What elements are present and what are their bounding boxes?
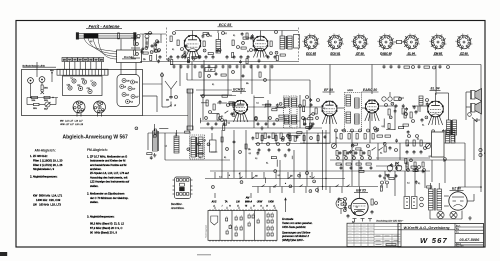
components on rails	[261, 136, 263, 141]
svg-text:UKW L17 L17 L18 L18: UKW L17 L17 L18 L18	[60, 124, 84, 126]
wire drops from bus	[179, 65, 181, 87]
svg-text:240: 240	[166, 100, 169, 102]
component cluster mid left band	[159, 127, 168, 129]
svg-text:TA: TA	[383, 177, 386, 180]
driver transformer	[446, 130, 450, 143]
tube socket diagram EABC 80	[379, 35, 393, 49]
tube EABC80	[366, 100, 379, 113]
tube socket diagram EF 89	[353, 35, 367, 49]
svg-text:L13: L13	[126, 94, 129, 96]
svg-text:AM: AM	[245, 197, 250, 200]
svg-text:1. ZF 10,7 MHz, Meßsender an G: 1. ZF 10,7 MHz, Meßsender an G	[87, 154, 127, 158]
coil L25	[174, 136, 179, 153]
svg-text:Instrumente und Kreise der M: Instrumente und Kreise der M	[90, 159, 126, 163]
wires mid left	[148, 132, 191, 134]
terminal strip bar	[57, 69, 108, 75]
svg-text:22k: 22k	[143, 59, 146, 61]
wire antenna feed	[161, 72, 163, 107]
wire bus AF	[252, 186, 378, 188]
wire zf link	[187, 79, 310, 81]
resistor 560k	[41, 85, 43, 90]
svg-text:UKW: UKW	[268, 201, 274, 203]
switch table box	[208, 211, 277, 241]
cluster under bus	[199, 72, 201, 77]
tuner assembly frame	[22, 70, 143, 116]
component cluster FM upper	[241, 32, 243, 33]
svg-text:60pF: 60pF	[44, 109, 48, 111]
terminal E circle	[39, 77, 45, 83]
output transformer	[447, 120, 451, 135]
svg-text:T 9: T 9	[456, 232, 458, 234]
svg-text:0,1: 0,1	[273, 187, 275, 189]
ratio detector transformer	[345, 93, 362, 132]
mains switch symbol	[211, 216, 218, 225]
svg-text:TA: TA	[225, 200, 228, 203]
dipole antenna	[167, 83, 172, 89]
component cluster EF89 grid	[303, 100, 305, 106]
terminal strip labels	[62, 58, 67, 62]
svg-text:Erg.: Erg.	[456, 228, 460, 231]
svg-text:0,1: 0,1	[402, 98, 404, 100]
svg-text:Filter 2 (L17/21) 28, L 26: Filter 2 (L17/21) 28, L 26	[33, 163, 63, 167]
filter cap cluster	[387, 165, 393, 171]
IF transformer 1.ZF	[280, 36, 285, 49]
tube pin leads ECC85b	[253, 51, 256, 58]
svg-text:EF 89: EF 89	[356, 51, 364, 55]
svg-text:25k: 25k	[248, 149, 251, 151]
svg-text:L7: L7	[91, 80, 93, 82]
svg-text:0,1: 0,1	[225, 33, 227, 35]
svg-text:Singlekreisele L 9: Singlekreisele L 9	[33, 167, 55, 171]
switch rotary	[45, 102, 50, 107]
wire frame links	[26, 98, 28, 105]
svg-text:0,1: 0,1	[204, 140, 206, 142]
svg-text:1. ZF: 1. ZF	[208, 70, 213, 72]
tube EM85	[351, 198, 368, 215]
component cluster mid right band	[414, 168, 416, 172]
svg-text:stellen.: stellen.	[90, 184, 99, 188]
wire lattice right	[394, 106, 396, 130]
tube pin leads EABC	[365, 113, 368, 121]
svg-text:ECC 85: ECC 85	[219, 23, 233, 27]
svg-text:L10: L10	[132, 88, 135, 90]
svg-text:0,1: 0,1	[255, 158, 257, 160]
component cluster ECH81 left	[206, 100, 208, 106]
wire rails mid	[255, 132, 330, 134]
svg-text:C28: C28	[67, 84, 70, 86]
svg-text:Netz: Netz	[50, 69, 54, 72]
wire Drehko to UKW box	[120, 63, 122, 75]
svg-text:50k: 50k	[246, 83, 249, 85]
svg-text:0,1: 0,1	[233, 35, 235, 37]
AM IF transformer	[190, 135, 205, 159]
switch table pin ticks	[209, 209, 211, 210]
wire frame bottom extension	[143, 115, 189, 117]
svg-text:0,1: 0,1	[266, 162, 268, 164]
component row mid 1	[256, 133, 258, 139]
dial lamp 1	[437, 211, 444, 218]
svg-text:Gez. 8.: Gez. 8.	[456, 243, 462, 245]
svg-text:Gepr. 8/57: Gepr. 8/57	[456, 246, 464, 248]
oscillator coil L3	[216, 40, 221, 54]
svg-text:gemessen mit Multavi Ⅱ: gemessen mit Multavi Ⅱ	[282, 234, 309, 238]
svg-text:L5: L5	[174, 105, 176, 107]
svg-text:3. Abgleichfrequenzen:: 3. Abgleichfrequenzen:	[87, 215, 115, 219]
title block	[398, 224, 484, 248]
tube ECC85a	[184, 35, 200, 51]
svg-text:0,1: 0,1	[172, 49, 174, 51]
wires mains bottom	[430, 218, 462, 220]
svg-text:ZF-Spulen L6, L10, L17, L76 au: ZF-Spulen L6, L10, L17, L76 auf	[90, 171, 129, 175]
svg-text:0,1: 0,1	[228, 123, 230, 125]
transformer T terminations	[354, 219, 356, 222]
socket link symbol	[397, 40, 402, 43]
svg-text:ECC 85: ECC 85	[306, 51, 316, 55]
svg-text:87,3 MHz (Band) 20 C 9, C: 87,3 MHz (Band) 20 C 9, C	[90, 226, 122, 230]
ferrite rod antenna L1	[76, 33, 140, 44]
svg-text:0,1: 0,1	[212, 84, 214, 86]
wires IF strip	[248, 106, 284, 108]
wires switch drops	[214, 172, 216, 179]
svg-text:560k: 560k	[44, 88, 48, 90]
svg-text:0,1: 0,1	[382, 126, 384, 128]
svg-text:AM: AM	[100, 59, 103, 62]
svg-text:0,1: 0,1	[336, 138, 338, 140]
svg-text:EABC 80: EABC 80	[363, 88, 377, 92]
capacitor row FM section	[170, 55, 172, 57]
wires col mid	[221, 130, 223, 160]
svg-text:PL2: PL2	[130, 101, 133, 103]
svg-text:Frontseite: Frontseite	[282, 217, 294, 221]
resistor R2	[44, 96, 50, 98]
svg-text:Filter 1 (L19/20) 19, L 20: Filter 1 (L19/20) 19, L 20	[33, 158, 63, 162]
tube pin leads EF89	[322, 116, 325, 124]
wire FM bottom rail	[140, 61, 299, 63]
svg-text:W.Krefft A.G.,Gevelsberg: W.Krefft A.G.,Gevelsberg	[404, 225, 451, 230]
svg-text:Spannungen und Ströme: Spannungen und Ströme	[282, 230, 311, 234]
svg-text:0,1: 0,1	[165, 146, 167, 148]
arrow Frontseite	[285, 199, 287, 212]
svg-text:HF23: HF23	[347, 90, 353, 92]
component cluster FM left	[170, 36, 172, 42]
svg-text:C17: C17	[135, 96, 138, 98]
component cluster EL84 left	[404, 112, 406, 118]
svg-text:0,1: 0,1	[246, 39, 248, 41]
svg-text:UKW-Taste gedrückt.: UKW-Taste gedrückt.	[282, 225, 306, 229]
wires mid right	[300, 142, 430, 144]
terminal strip posts	[63, 62, 65, 70]
svg-text:03-67-5086: 03-67-5086	[459, 237, 480, 242]
switch table dividers	[219, 211, 221, 241]
box Drehko	[117, 50, 142, 63]
svg-text:2. Meßsender an Dipolbuchsen: 2. Meßsender an Dipolbuchsen	[87, 192, 125, 196]
component cluster mid center band	[276, 160, 278, 167]
label 1.ZF box	[205, 68, 215, 72]
svg-text:der C 70 Minimum der Gleichsp.: der C 70 Minimum der Gleichsp.	[90, 196, 129, 200]
svg-text:0,1: 0,1	[219, 176, 221, 178]
tube ECH81	[234, 100, 248, 114]
component cluster top right bus	[383, 65, 385, 67]
FM wiring top	[175, 30, 298, 32]
svg-text:0,1: 0,1	[407, 145, 409, 147]
svg-text:2. Abgleichfrequenzen:: 2. Abgleichfrequenzen:	[30, 174, 58, 178]
voltage selector blocks	[404, 197, 410, 209]
antenna input parts	[146, 38, 148, 44]
DIN socket TA	[336, 199, 346, 209]
svg-text:KW 5800 kHz L14, L71: KW 5800 kHz L14, L71	[33, 193, 63, 197]
svg-text:L9: L9	[124, 86, 126, 88]
svg-text:0,1: 0,1	[233, 112, 235, 114]
tube socket diagram ECC 85	[304, 35, 318, 49]
svg-text:EL 84: EL 84	[408, 51, 416, 55]
wire ferrite to tuner	[84, 38, 117, 59]
svg-text:0,1: 0,1	[380, 152, 382, 154]
svg-text:EABC 80: EABC 80	[380, 51, 392, 55]
tube EF89	[322, 101, 337, 116]
svg-text:EZ 80: EZ 80	[460, 51, 468, 55]
tube pin leads ECC85a	[185, 51, 188, 58]
cluster FM left col	[134, 40, 136, 45]
svg-text:ECH 81: ECH 81	[330, 51, 340, 55]
tube EZ80	[449, 192, 467, 210]
tube socket diagram EZ 80	[457, 35, 471, 49]
wires EL84 output	[435, 93, 437, 101]
box filter	[210, 140, 217, 152]
svg-text:Anschlüsse.: Anschlüsse.	[170, 207, 185, 210]
svg-text:EM 85: EM 85	[434, 51, 443, 55]
wire drops to table	[214, 207, 216, 210]
tube pin leads EL84	[428, 117, 431, 125]
svg-text:0,1: 0,1	[422, 125, 424, 127]
terminal A circle	[28, 78, 34, 84]
svg-text:1k: 1k	[247, 51, 249, 53]
resistor R3	[34, 103, 40, 105]
wire lattice IF strip	[200, 95, 236, 97]
power transformer	[429, 189, 434, 210]
svg-text:0,1: 0,1	[341, 130, 343, 132]
right band rows	[336, 151, 338, 156]
svg-text:1. ZF 460 kHz:: 1. ZF 460 kHz:	[30, 154, 48, 158]
adjustable coil pack L14-L17	[73, 101, 85, 113]
tube socket diagram EM 85	[431, 35, 445, 49]
AM tuner trimmer box	[63, 76, 103, 96]
rear connector rect	[432, 132, 445, 157]
component cluster IF left	[232, 114, 235, 117]
wire bus links	[329, 65, 331, 96]
tube ECC85b	[253, 36, 268, 51]
svg-text:1400 kHz C26, C39: 1400 kHz C26, C39	[36, 198, 61, 202]
tone network cluster	[406, 140, 408, 146]
IF strip extra caps	[207, 122, 209, 123]
wire node row	[27, 97, 58, 99]
svg-text:Ferrit - Antenne: Ferrit - Antenne	[88, 24, 120, 29]
svg-text:380k: 380k	[33, 108, 37, 110]
tube socket diagram ECH 81	[329, 35, 343, 49]
svg-text:500k: 500k	[32, 100, 36, 102]
svg-text:0,1: 0,1	[323, 108, 325, 110]
svg-text:0,1: 0,1	[199, 157, 201, 159]
svg-text:0,1: 0,1	[256, 103, 258, 105]
svg-text:EF 89: EF 89	[324, 88, 333, 92]
antenna switch	[168, 105, 172, 107]
volume pot cluster	[331, 143, 336, 148]
switch contact marks	[226, 218, 228, 221]
band cable pair	[187, 89, 189, 130]
svg-text:FM-Abgleich:: FM-Abgleich:	[87, 148, 108, 152]
svg-text:LW 160 kHz L18, L73: LW 160 kHz L18, L73	[33, 203, 61, 207]
svg-text:Umschaltung 110v 125v 220v~: Umschaltung 110v 125v 220v~	[376, 219, 404, 222]
svg-text:C33: C33	[77, 85, 80, 87]
trimmers in AM box	[72, 79, 76, 83]
wire tuner to main 2	[143, 95, 158, 97]
adjustable coil pack L16-L18	[94, 101, 106, 113]
wire PSU links	[330, 170, 430, 172]
tube EL84	[428, 101, 444, 117]
shield can rect	[294, 35, 300, 49]
svg-text:stellen.: stellen.	[90, 200, 99, 204]
svg-text:UKW: UKW	[257, 201, 263, 203]
scan mark bottom-left edge	[0, 252, 7, 256]
svg-text:0,1: 0,1	[418, 183, 420, 185]
ground G1	[154, 153, 156, 155]
svg-text:0,1: 0,1	[356, 207, 358, 209]
antenna coupling C	[170, 95, 172, 97]
wire speaker feed	[466, 91, 471, 93]
wire tuner to main 1	[143, 83, 163, 85]
wire B+ right drop	[480, 65, 482, 193]
svg-text:0,1: 0,1	[249, 153, 251, 155]
svg-text:W 567: W 567	[420, 236, 448, 245]
speaker LS2	[471, 104, 476, 113]
speaker LS1	[471, 91, 476, 100]
svg-text:MW+A: MW+A	[245, 200, 252, 203]
arrow Netz	[51, 73, 53, 83]
Bandfilter connector	[175, 177, 191, 199]
component cluster mixer	[272, 109, 277, 111]
UKW unit box	[117, 75, 140, 107]
wire EM85 up	[359, 187, 361, 195]
svg-text:0,1: 0,1	[224, 157, 226, 159]
wire antenna lead	[36, 70, 38, 77]
component cluster det area	[426, 102, 428, 103]
coil L24	[153, 131, 158, 151]
svg-text:AUS: AUS	[211, 200, 217, 203]
svg-text:0,1: 0,1	[407, 183, 409, 185]
svg-text:Tasten von unten gesehen.: Tasten von unten gesehen.	[282, 221, 313, 225]
svg-text:(WhB)(V)bei 220V~: (WhB)(V)bei 220V~	[282, 238, 305, 242]
cluster before ECC85b	[246, 33, 248, 38]
label Ferrit-Antenne	[86, 24, 122, 29]
svg-text:C32: C32	[81, 78, 84, 80]
wires EZ80	[458, 186, 481, 188]
component row mid 2	[340, 134, 342, 140]
scan smudge bottom center	[197, 254, 211, 255]
svg-text:MW L14 L17 L16 L17: MW L14 L17 L16 L17	[60, 120, 83, 123]
svg-text:Bandfilter-: Bandfilter-	[171, 203, 183, 206]
switch contacts row	[240, 177, 243, 179]
svg-text:ECH 81: ECH 81	[233, 87, 245, 91]
svg-text:0,1: 0,1	[278, 175, 280, 177]
svg-text:EL 84: EL 84	[431, 87, 440, 91]
svg-text:Ers. f.: Ers. f.	[456, 224, 461, 227]
svg-text:C34: C34	[87, 87, 90, 90]
wire rod to box	[134, 39, 136, 51]
measurement table	[347, 223, 401, 246]
right band rows2	[406, 162, 408, 167]
svg-text:C30: C30	[126, 80, 129, 82]
svg-text:EM 85: EM 85	[356, 188, 366, 192]
decoupling capacitor row	[173, 65, 175, 67]
EM85 components	[344, 198, 347, 201]
component cluster FM input	[156, 40, 159, 43]
dial lamp 2	[450, 211, 457, 218]
component cluster EABC right	[382, 97, 386, 101]
label Bei Bedarf Antenne u. Erde	[23, 65, 57, 68]
svg-text:L4: L4	[71, 76, 73, 79]
FM box shield	[166, 28, 168, 62]
svg-text:0,1: 0,1	[417, 139, 419, 141]
svg-text:Ausschlag des Instruments, mit: Ausschlag des Instruments, mit	[90, 175, 128, 179]
svg-text:Tastenaggregat: Tastenaggregat	[205, 224, 208, 238]
svg-text:anziehen.: anziehen.	[90, 167, 102, 171]
svg-text:88,3 MHz (Band II) ZL 5, L2: 88,3 MHz (Band II) ZL 5, L2	[90, 221, 124, 225]
ext speaker terminals	[479, 148, 482, 151]
wire B+ bus	[170, 64, 481, 66]
wire lattice low	[210, 170, 330, 172]
svg-text:AM-Abgleich:: AM-Abgleich:	[35, 148, 56, 152]
IF transformer Fi2	[284, 96, 290, 128]
svg-text:C31: C31	[135, 82, 138, 84]
component cluster FM mid	[218, 49, 221, 52]
resistor R1	[32, 96, 38, 98]
svg-text:erst bezeichnete Punkte auf M: erst bezeichnete Punkte auf M	[90, 163, 127, 167]
tube pin leads ECH81	[234, 114, 237, 122]
switch X	[41, 91, 45, 95]
svg-text:AM: AM	[63, 59, 66, 62]
svg-text:Abgleich-Anweisung W 567: Abgleich-Anweisung W 567	[63, 134, 129, 140]
svg-text:L22 Anzeige des Instruments au: L22 Anzeige des Instruments auf	[90, 180, 129, 184]
trimmers in UKW box	[122, 79, 126, 83]
component cluster AF low band	[274, 170, 277, 173]
wire long vertical pair	[322, 130, 324, 190]
tube socket diagram EL 84	[405, 35, 419, 49]
svg-text:90 MHz (Band) 20 L 9: 90 MHz (Band) 20 L 9	[90, 231, 117, 235]
svg-text:0,1: 0,1	[210, 36, 212, 38]
